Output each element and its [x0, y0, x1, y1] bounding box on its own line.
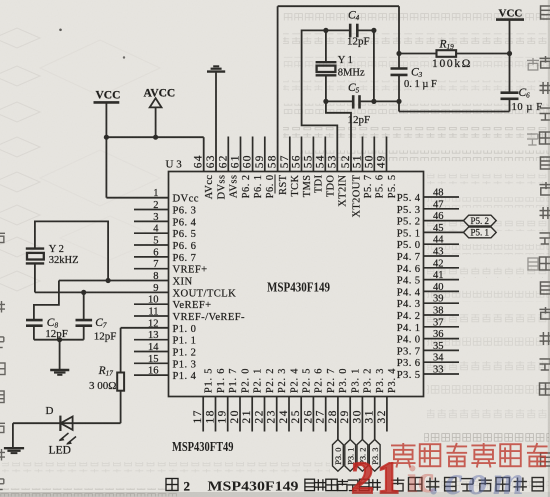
wire R17 to LED to ground: [13, 423, 121, 447]
connector P5.1: [464, 227, 497, 238]
capacitor C8: [26, 320, 43, 340]
crystal Y1: [316, 30, 337, 101]
resistor R19: [399, 50, 510, 57]
wire VCC rail to AVcc pin 64 and DVcc pin 1: [106, 137, 203, 198]
label C4: [348, 10, 360, 23]
label C8: [47, 317, 59, 330]
connector P3.3: [369, 440, 380, 472]
junction C5/C3 rail: [396, 99, 401, 104]
label MSP430FT49 (bottom-left of chip): [172, 439, 234, 454]
chip U3 left pin numbers 1..16: [148, 188, 159, 376]
chip U3 left pin labels: [173, 194, 246, 382]
capacitor C3: [391, 69, 408, 102]
cut-off dark characters, right page edge: [527, 6, 550, 466]
chip U3 bottom pin stubs: [203, 397, 387, 440]
value 12pF (C8): [45, 328, 68, 340]
value 0.1µF: [404, 79, 437, 90]
chip U3 right pin labels: [397, 193, 421, 381]
connector P5.2: [464, 215, 497, 226]
wire C3/C6 bottom rail: [399, 101, 510, 111]
chip U3 right pin stubs: [424, 197, 464, 374]
label Y2: [49, 244, 64, 255]
scan grain overlay: [0, 0, 1, 1]
value 100kΩ: [432, 58, 472, 70]
connector P3.0: [333, 440, 344, 472]
wire RST pin 58 up to pull-up network: [278, 6, 399, 171]
value 8MHz: [338, 68, 365, 79]
junction VCC rail: [104, 135, 109, 140]
chip reference U3: [166, 159, 183, 171]
chip U3 top pin labels: [204, 174, 398, 217]
junction C8/C7 ground wire: [57, 337, 62, 342]
wire XT2IN pin 53 to Y1 top: [302, 30, 338, 171]
ground (below C8/C7): [50, 370, 69, 375]
chip U3 right pin numbers 48..33: [433, 188, 444, 376]
wire XIN pin 8 net: [34, 281, 169, 321]
label C5: [348, 82, 360, 95]
wire C8/C7 to ground: [34, 340, 84, 370]
value 10µF: [512, 102, 543, 113]
chip U3 top pin stubs: [228, 137, 386, 172]
connector P3.1: [345, 440, 356, 472]
value 12pF (C4): [347, 36, 370, 48]
junction C4/C5 right: [371, 28, 376, 104]
power VCC (top-right): [496, 8, 524, 93]
connector P3.2: [357, 440, 368, 472]
label LED: [49, 445, 71, 457]
label C3: [411, 67, 423, 80]
faint flowchart diamonds (bleed-through, left margin): [0, 28, 160, 291]
label Y1: [338, 55, 353, 66]
label C6: [519, 87, 531, 100]
junction RST/R19/C3: [396, 51, 401, 56]
watermark: red site name + 21ic + blue .com: [351, 443, 548, 497]
wire XOUT pin 9 net: [35, 291, 169, 293]
op-amp/mcu U3 MSP430F149 chip body: [169, 172, 424, 397]
value 12pF (C5): [348, 114, 371, 126]
chip U3 top pin numbers 64..49: [193, 154, 388, 168]
wire XT2OUT pin 52 to Y1 bottom: [326, 101, 351, 171]
junction C7 on XOUT wire: [81, 290, 86, 320]
junction Y1 bottom / C5: [323, 99, 328, 104]
chip U3 left pin stubs: [134, 210, 169, 376]
power VCC (top-left): [94, 90, 121, 138]
label D: [46, 405, 54, 417]
value 12pF (C7): [94, 331, 117, 343]
chip U3 bottom pin numbers 17..32: [192, 409, 388, 424]
ground (LED): [4, 448, 24, 453]
label R17: [98, 365, 114, 378]
chip U3 bottom pin labels: [204, 368, 399, 393]
resistor R17: [117, 373, 124, 424]
chip part number MSP430F149 (center): [267, 280, 330, 295]
power AVCC: [144, 88, 176, 138]
junction Y1 top / C4: [323, 28, 328, 33]
LED D: [60, 416, 72, 431]
label C7: [95, 317, 107, 330]
LED emission arrows: [59, 433, 76, 445]
junction AVCC on rail: [153, 135, 158, 140]
stray ink dots: [59, 29, 125, 59]
capacitor C4: [326, 24, 374, 38]
wire P1.0 pin 12 to R17: [121, 328, 169, 373]
capacitor C5: [326, 95, 399, 108]
value 300Ω: [89, 380, 116, 392]
cut-off dark characters, left page edge: [0, 231, 5, 490]
ground (top, DVss pin 63): [207, 66, 225, 171]
capacitor C7: [76, 320, 93, 340]
junction R19/VCC/C6: [507, 51, 512, 56]
junction Y2 top on XIN wire: [106, 278, 111, 283]
label R19: [439, 39, 455, 52]
value 32kHZ: [49, 255, 79, 266]
caption: 图2 MSP430F149 单片机控制电路 射频和天线设计专家: [166, 478, 543, 494]
capacitor C6: [501, 93, 519, 112]
crystal Y2: [26, 221, 108, 292]
